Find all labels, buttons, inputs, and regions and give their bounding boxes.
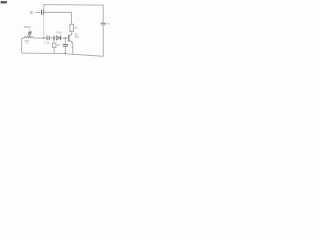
- wire left vertical: [21, 38, 23, 53]
- svg-text:OA91: OA91: [56, 32, 63, 35]
- wire diode to base: [61, 37, 68, 39]
- wire bar to diode: [54, 37, 56, 39]
- diode D1: [56, 36, 60, 40]
- variable capacitor VC1: [29, 29, 31, 31]
- title text top-left: [1, 1, 8, 3]
- capacitor C4 plate bar: [53, 36, 55, 40]
- wire L1 to junction: [33, 37, 47, 39]
- svg-text:1M: 1M: [57, 44, 60, 47]
- svg-text:coil: coil: [25, 43, 29, 45]
- wire bottom rail: [22, 53, 104, 56]
- wire top rail: [44, 5, 103, 23]
- wire collector chain from top rail: [71, 12, 73, 24]
- resistor R1: [70, 24, 74, 31]
- wire C1 right to junction and up: [44, 11, 72, 13]
- emitter tick: [71, 47, 73, 49]
- wire C1 left lead: [35, 11, 41, 13]
- svg-text:C 1p: C 1p: [44, 41, 50, 44]
- transistor Q1: [69, 31, 72, 36]
- svg-text:365pF: 365pF: [24, 26, 32, 29]
- svg-text:2p: 2p: [30, 11, 34, 15]
- capacitor C3 emitter-side: [64, 38, 66, 44]
- wire emitter down: [72, 43, 74, 54]
- capacitor C1: [41, 10, 43, 15]
- wire right vertical down: [102, 25, 104, 56]
- capacitor C2: [46, 36, 48, 41]
- node rail junction dot: [65, 53, 67, 55]
- wire vertical from C1 junction down: [43, 12, 45, 38]
- wire C2 to bar: [50, 37, 54, 39]
- capacitor C5 top right: [101, 22, 106, 24]
- resistor R2 below: [53, 40, 55, 43]
- node junction dot: [43, 37, 45, 39]
- inductor L1 coil: [22, 37, 25, 39]
- node base junction: [65, 37, 67, 39]
- svg-text:548: 548: [75, 36, 80, 39]
